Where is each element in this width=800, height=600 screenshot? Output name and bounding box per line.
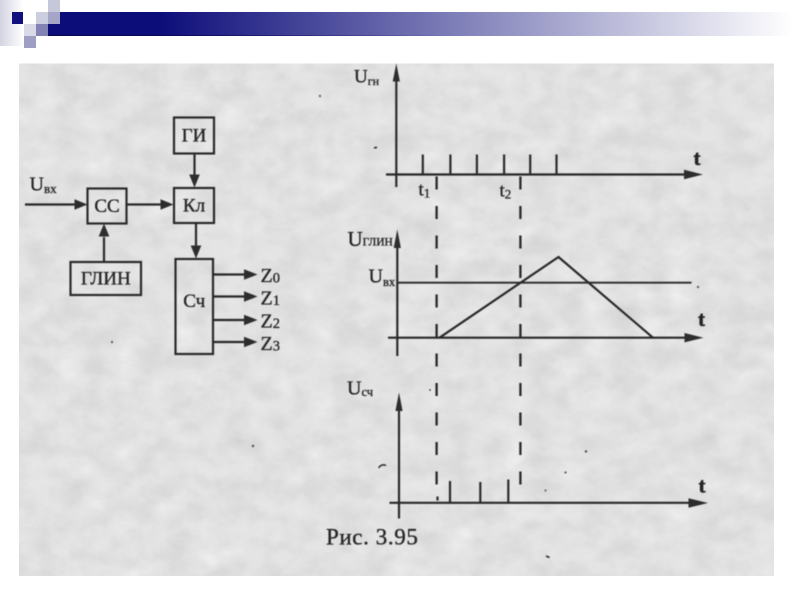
svg-text:Кл: Кл bbox=[183, 196, 206, 217]
svg-text:ГИ: ГИ bbox=[182, 126, 207, 147]
svg-text:СС: СС bbox=[94, 196, 119, 217]
svg-text:Рис. 3.95: Рис. 3.95 bbox=[326, 525, 418, 550]
svg-text:ГЛИН: ГЛИН bbox=[81, 269, 131, 290]
svg-text:t: t bbox=[698, 307, 705, 331]
svg-text:t: t bbox=[699, 474, 706, 498]
svg-text:Сч: Сч bbox=[183, 291, 205, 312]
svg-text:t: t bbox=[694, 146, 701, 170]
